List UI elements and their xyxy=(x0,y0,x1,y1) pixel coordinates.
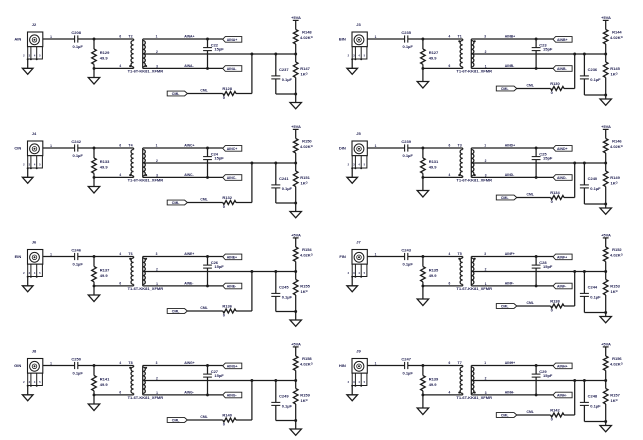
resistor R145 1K xyxy=(603,54,620,95)
wire CML flag to R142 xyxy=(517,414,551,416)
node AIND+ off-page flag xyxy=(553,146,572,152)
svg-text:1: 1 xyxy=(156,35,158,39)
ground at connector J5 xyxy=(347,168,358,183)
svg-text:AINC-: AINC- xyxy=(227,176,238,180)
junction C26 top xyxy=(206,255,209,258)
svg-text:AINE+: AINE+ xyxy=(227,255,237,259)
svg-text:AINB-: AINB- xyxy=(505,64,514,68)
junction C29 top xyxy=(535,364,538,367)
svg-text:R144: R144 xyxy=(612,30,622,35)
svg-text:CML: CML xyxy=(527,410,534,414)
wire T2 secondary top to AINA+ flag xyxy=(143,38,223,40)
capacitor C248 0.1uF xyxy=(580,381,601,422)
capacitor C250 0.1uF xyxy=(71,357,83,376)
svg-text:6: 6 xyxy=(119,282,121,286)
wire J5 pin 1 to C239 xyxy=(367,144,404,148)
svg-text:15pF: 15pF xyxy=(543,156,553,161)
junction C24 top xyxy=(206,147,209,150)
svg-text:0.1µF: 0.1µF xyxy=(73,262,84,267)
svg-text:CML: CML xyxy=(200,88,207,92)
node CML off-page flag xyxy=(496,195,517,200)
svg-text:AING+: AING+ xyxy=(184,361,194,365)
ground at divider xyxy=(600,95,611,105)
ground at divider xyxy=(600,313,611,323)
svg-text:T6: T6 xyxy=(128,252,132,256)
svg-text:AINE+: AINE+ xyxy=(184,252,194,256)
svg-text:AING-: AING- xyxy=(184,391,194,395)
svg-text:+5VA: +5VA xyxy=(601,342,611,347)
svg-text:1: 1 xyxy=(50,144,52,148)
resistor R133 49.9 xyxy=(92,148,110,177)
junction C28 bottom xyxy=(535,284,538,287)
transformer T8 T1-6T-KK81_XFMR xyxy=(119,361,163,400)
resistor R131 49.9 xyxy=(421,148,439,177)
ground at R139 xyxy=(417,395,428,415)
svg-text:R135: R135 xyxy=(429,268,439,273)
svg-text:1: 1 xyxy=(50,362,52,366)
svg-text:15pF: 15pF xyxy=(543,47,553,52)
connector J5 xyxy=(348,131,368,169)
wire T6 secondary bottom to AINE- flag xyxy=(143,285,223,287)
resistor R134 0 ohm xyxy=(550,190,564,204)
wire T3 center tap to bias node xyxy=(471,162,605,164)
node CML off-page flag xyxy=(167,200,187,205)
connector J6 xyxy=(23,240,43,278)
svg-text:6: 6 xyxy=(119,35,121,39)
node AINH+ off-page flag xyxy=(553,363,572,369)
svg-text:CML: CML xyxy=(501,305,509,309)
wire T4 center tap to bias node xyxy=(143,162,296,164)
svg-text:0.1µF: 0.1µF xyxy=(590,77,601,82)
svg-text:AINE-: AINE- xyxy=(184,282,193,286)
svg-text:15pF: 15pF xyxy=(543,373,553,378)
svg-text:R132: R132 xyxy=(222,195,232,200)
wire CML flag to R130 xyxy=(517,88,551,90)
svg-text:+5VA: +5VA xyxy=(601,15,611,20)
resistor R132 0 ohm xyxy=(222,195,236,209)
svg-text:4: 4 xyxy=(449,391,451,395)
svg-text:T1-6T-KK81_XFMR: T1-6T-KK81_XFMR xyxy=(456,395,492,400)
svg-text:J7: J7 xyxy=(356,240,361,245)
svg-text:AIND-: AIND- xyxy=(505,173,514,177)
capacitor C208 0.1uF xyxy=(71,30,83,49)
junction divider center tap xyxy=(604,53,607,56)
power +5VA xyxy=(601,233,611,238)
svg-text:15pF: 15pF xyxy=(214,47,224,52)
svg-text:1: 1 xyxy=(50,253,52,257)
junction CML to center tap xyxy=(573,270,576,273)
svg-text:R128: R128 xyxy=(222,86,232,91)
svg-text:R156: R156 xyxy=(612,356,622,361)
wire C246 to T6 primary top pin xyxy=(78,256,134,258)
svg-text:FIN: FIN xyxy=(339,254,346,259)
svg-text:CML: CML xyxy=(527,83,534,87)
junction C25 bottom xyxy=(535,176,538,179)
wire T2 secondary bottom to AINA- flag xyxy=(143,67,223,69)
transformer T6 T1-6T-KK81_XFMR xyxy=(119,252,163,291)
node AINB+ off-page flag xyxy=(553,37,572,43)
svg-text:C249: C249 xyxy=(279,394,289,399)
capacitor C29 15pF across AINH+/- xyxy=(532,366,553,395)
node AINE- off-page flag xyxy=(223,283,242,289)
resistor R136 0 ohm xyxy=(222,304,236,318)
svg-text:2: 2 xyxy=(156,50,158,54)
resistor R139 49.9 xyxy=(421,366,439,395)
node AINA+ off-page flag xyxy=(223,37,242,43)
transformer T7 T1-6T-KK81_XFMR xyxy=(449,361,493,400)
resistor R135 49.9 xyxy=(421,257,439,286)
resistor R151 1K xyxy=(293,163,310,203)
wire R137 bottom to T6 primary bottom pin xyxy=(94,285,134,287)
svg-text:0.1µF: 0.1µF xyxy=(403,44,414,49)
junction CML to center tap xyxy=(573,379,576,382)
svg-text:6: 6 xyxy=(449,361,451,365)
junction C248 top xyxy=(583,379,586,382)
resistor R129 49.9 xyxy=(92,39,110,68)
svg-text:+5VA: +5VA xyxy=(601,124,611,129)
junction bottom rail xyxy=(604,420,607,423)
node AINA- off-page flag xyxy=(223,66,242,72)
node AINC+ off-page flag xyxy=(223,146,242,152)
svg-text:4: 4 xyxy=(449,35,451,39)
junction R131 bottom xyxy=(421,176,424,179)
junction CML to center tap xyxy=(250,379,253,382)
junction CML to center tap xyxy=(250,162,253,165)
wire CML flag to R134 xyxy=(517,197,551,199)
svg-text:T1-6T-KK81_XFMR: T1-6T-KK81_XFMR xyxy=(128,178,164,183)
svg-text:AINF+: AINF+ xyxy=(557,255,567,259)
resistor R142 0 ohm xyxy=(550,408,564,422)
node AINC- off-page flag xyxy=(223,175,242,181)
ground at divider xyxy=(290,94,301,109)
resistor R153 1K xyxy=(603,272,620,313)
wire T1 center tap to bias node xyxy=(471,53,605,55)
svg-text:49.9: 49.9 xyxy=(429,56,438,61)
power +5VA xyxy=(291,15,301,20)
svg-text:C235: C235 xyxy=(401,30,411,35)
svg-text:AINF-: AINF- xyxy=(505,282,514,286)
wire T5 secondary bottom to AINF- flag xyxy=(471,285,553,287)
junction C23 top xyxy=(535,38,538,41)
wire R142 to center tap xyxy=(564,381,575,416)
resistor R127 49.9 xyxy=(421,39,439,68)
wire J4 pin 1 to C242 xyxy=(43,144,75,148)
wire R133 bottom to T4 primary bottom pin xyxy=(94,176,134,178)
wire bottom rail xyxy=(584,203,605,205)
ground at R135 xyxy=(417,286,428,306)
capacitor C235 0.1uF xyxy=(401,30,413,49)
junction divider center tap xyxy=(294,162,297,165)
svg-text:4: 4 xyxy=(449,173,451,177)
resistor R146 4.02K xyxy=(603,129,622,163)
ground at connector J7 xyxy=(347,277,358,292)
wire T5 secondary top to AINF+ flag xyxy=(471,256,553,258)
junction bottom rail xyxy=(604,203,607,206)
junction C244 top xyxy=(583,270,586,273)
junction bottom rail xyxy=(294,202,297,205)
svg-text:1: 1 xyxy=(375,144,377,148)
wire bottom rail xyxy=(276,202,296,204)
svg-text:GIN: GIN xyxy=(14,363,21,368)
wire C239 to T3 primary top pin xyxy=(408,147,463,149)
ground at connector J2 xyxy=(22,59,33,74)
svg-text:2: 2 xyxy=(156,376,158,380)
svg-text:CML: CML xyxy=(527,192,534,196)
power +5VA xyxy=(291,233,301,238)
connector J7 xyxy=(348,240,368,278)
resistor R148 4.02K xyxy=(293,20,312,54)
svg-text:AINB+: AINB+ xyxy=(505,35,515,39)
junction bottom rail xyxy=(294,310,297,313)
wire T1 secondary bottom to AINB- flag xyxy=(471,67,553,69)
svg-text:R133: R133 xyxy=(100,159,110,164)
connector J4 xyxy=(23,131,43,169)
svg-text:15pF: 15pF xyxy=(543,264,553,269)
junction divider center tap xyxy=(604,379,607,382)
svg-text:C248: C248 xyxy=(588,394,598,399)
wire R129 bottom to T2 primary bottom pin xyxy=(94,67,134,69)
svg-text:4: 4 xyxy=(119,361,121,365)
svg-text:0.1µF: 0.1µF xyxy=(590,186,601,191)
ground at connector J9 xyxy=(347,386,358,401)
junction C25 top xyxy=(535,147,538,150)
svg-text:AINH-: AINH- xyxy=(505,391,514,395)
node AINF- off-page flag xyxy=(553,283,572,289)
junction divider center tap xyxy=(604,270,607,273)
node CML off-page flag xyxy=(496,86,517,91)
svg-text:R142: R142 xyxy=(550,408,560,413)
svg-text:C246: C246 xyxy=(71,248,81,253)
junction CML to center tap xyxy=(250,270,253,273)
wire R132 to center tap xyxy=(236,163,252,203)
svg-text:R129: R129 xyxy=(100,50,110,55)
svg-text:CML: CML xyxy=(200,197,207,201)
resistor R159 1K xyxy=(293,381,310,421)
svg-text:CML: CML xyxy=(172,201,180,205)
svg-text:2: 2 xyxy=(485,267,487,271)
wire R127 bottom to T1 primary bottom pin xyxy=(423,67,463,69)
svg-text:R134: R134 xyxy=(550,190,560,195)
ground at divider xyxy=(290,312,301,327)
wire J2 pin 1 to C208 xyxy=(43,35,75,39)
capacitor C239 0.1uF xyxy=(401,139,413,158)
wire R141 bottom to T8 primary bottom pin xyxy=(94,394,134,396)
node AINE+ off-page flag xyxy=(223,254,242,260)
transformer T1 T1-6T-KK81_XFMR xyxy=(449,35,493,74)
svg-text:CML: CML xyxy=(172,310,180,314)
junction C22 bottom xyxy=(206,67,209,70)
ground at divider xyxy=(600,204,611,214)
resistor R141 49.9 xyxy=(92,366,110,395)
svg-text:AINA-: AINA- xyxy=(184,64,193,68)
svg-text:0.1µF: 0.1µF xyxy=(73,44,84,49)
svg-text:49.9: 49.9 xyxy=(429,273,438,278)
svg-text:CML: CML xyxy=(501,196,509,200)
svg-text:3: 3 xyxy=(156,361,158,365)
capacitor C27 15pF across AING+/- xyxy=(203,366,224,395)
svg-text:AINC+: AINC+ xyxy=(227,147,238,151)
junction C249 top xyxy=(274,379,277,382)
junction C24 bottom xyxy=(206,176,209,179)
wire bottom rail xyxy=(584,94,605,96)
power +5VA xyxy=(601,124,611,129)
wire T8 secondary bottom to AING- flag xyxy=(143,394,223,396)
svg-text:1: 1 xyxy=(375,253,377,257)
junction C236 top xyxy=(583,53,586,56)
svg-text:C245: C245 xyxy=(279,285,289,290)
junction C237 top xyxy=(274,53,277,56)
svg-text:AIND+: AIND+ xyxy=(505,144,515,148)
svg-text:HIN: HIN xyxy=(339,363,346,368)
svg-text:AINB-: AINB- xyxy=(557,67,568,71)
junction R137 top xyxy=(93,255,96,258)
wire J8 pin 1 to C250 xyxy=(43,362,75,366)
svg-text:15pF: 15pF xyxy=(214,373,224,378)
svg-text:R139: R139 xyxy=(429,377,439,382)
svg-text:CML: CML xyxy=(172,92,180,96)
wire T6 secondary top to AINE+ flag xyxy=(143,256,223,258)
junction C27 bottom xyxy=(206,393,209,396)
junction R135 top xyxy=(421,255,424,258)
svg-text:T1-6T-KK81_XFMR: T1-6T-KK81_XFMR xyxy=(456,286,492,291)
svg-text:4: 4 xyxy=(449,252,451,256)
svg-text:R150: R150 xyxy=(302,139,312,144)
svg-text:T1-6T-KK81_XFMR: T1-6T-KK81_XFMR xyxy=(128,69,164,74)
svg-text:+5VA: +5VA xyxy=(291,342,301,347)
wire bottom rail xyxy=(276,420,296,422)
wire C247 to T7 primary top pin xyxy=(408,365,463,367)
wire R134 to center tap xyxy=(564,163,575,198)
svg-text:0.1µF: 0.1µF xyxy=(282,404,293,409)
svg-text:49.9: 49.9 xyxy=(100,273,109,278)
svg-text:AINA-: AINA- xyxy=(227,67,238,71)
wire T6 center tap to bias node xyxy=(143,271,296,273)
svg-text:DIN: DIN xyxy=(339,146,346,151)
capacitor C240 0.1uF xyxy=(580,163,601,204)
junction R133 bottom xyxy=(93,176,96,179)
node AING- off-page flag xyxy=(223,392,242,398)
svg-text:49.9: 49.9 xyxy=(100,165,109,170)
svg-text:J4: J4 xyxy=(32,131,37,136)
svg-text:CML: CML xyxy=(200,415,207,419)
svg-text:R152: R152 xyxy=(612,247,622,252)
svg-text:C243: C243 xyxy=(401,248,411,253)
transformer T2 T1-6T-KK81_XFMR xyxy=(119,35,163,74)
svg-text:CML: CML xyxy=(200,306,207,310)
junction C241 top xyxy=(274,162,277,165)
power +5VA xyxy=(601,15,611,20)
resistor R144 4.02K xyxy=(603,20,622,54)
junction R141 top xyxy=(93,364,96,367)
resistor R128 0 ohm xyxy=(222,86,236,100)
wire R135 bottom to T5 primary bottom pin xyxy=(423,285,463,287)
resistor R150 4.02K xyxy=(293,129,312,163)
svg-text:T4: T4 xyxy=(128,144,132,148)
svg-text:AINH-: AINH- xyxy=(557,394,568,398)
resistor R157 1K xyxy=(603,381,620,422)
junction R127 top xyxy=(421,38,424,41)
svg-text:C242: C242 xyxy=(71,139,81,144)
svg-text:2: 2 xyxy=(156,159,158,163)
svg-text:C250: C250 xyxy=(71,357,81,362)
wire C243 to T5 primary top pin xyxy=(408,256,463,258)
wire T4 secondary top to AINC+ flag xyxy=(143,147,223,149)
node CML off-page flag xyxy=(496,304,517,309)
svg-text:T1-6T-KK81_XFMR: T1-6T-KK81_XFMR xyxy=(128,286,164,291)
svg-text:4: 4 xyxy=(119,173,121,177)
junction R139 top xyxy=(421,364,424,367)
wire bottom rail xyxy=(276,93,296,95)
svg-text:R127: R127 xyxy=(429,50,439,55)
junction C29 bottom xyxy=(535,393,538,396)
wire bottom rail xyxy=(584,421,605,423)
svg-text:R146: R146 xyxy=(612,139,622,144)
svg-text:J3: J3 xyxy=(356,22,361,27)
ground at connector J3 xyxy=(347,59,358,74)
resistor R156 4.02K xyxy=(603,347,622,381)
svg-text:0.1µF: 0.1µF xyxy=(282,77,293,82)
svg-text:4: 4 xyxy=(119,64,121,68)
wire T7 secondary bottom to AINH- flag xyxy=(471,394,553,396)
svg-text:CIN: CIN xyxy=(14,146,21,151)
wire T7 secondary top to AINH+ flag xyxy=(471,365,553,367)
ground at R133 xyxy=(88,177,99,193)
junction CML to center tap xyxy=(573,162,576,165)
svg-text:2: 2 xyxy=(485,159,487,163)
ground at connector J6 xyxy=(22,277,33,292)
resistor R158 4.02K xyxy=(293,347,312,381)
resistor R152 4.02K xyxy=(603,238,622,272)
wire T7 center tap to bias node xyxy=(471,380,605,382)
node CML off-page flag xyxy=(167,418,187,423)
junction R141 bottom xyxy=(93,393,96,396)
ground at connector J4 xyxy=(22,168,33,183)
power +5VA xyxy=(601,342,611,347)
wire R138 to center tap xyxy=(564,272,575,307)
svg-text:J8: J8 xyxy=(32,349,37,354)
svg-text:BIN: BIN xyxy=(339,37,346,42)
capacitor C23 15pF across AINB+/- xyxy=(532,39,553,68)
svg-text:AINC+: AINC+ xyxy=(184,144,194,148)
ground at divider xyxy=(600,422,611,432)
wire R139 bottom to T7 primary bottom pin xyxy=(423,394,463,396)
wire J7 pin 1 to C243 xyxy=(367,253,404,257)
connector J3 xyxy=(348,22,368,60)
wire T5 center tap to bias node xyxy=(471,271,605,273)
power +5VA xyxy=(291,342,301,347)
svg-text:49.9: 49.9 xyxy=(429,382,438,387)
junction R139 bottom xyxy=(421,393,424,396)
svg-text:C208: C208 xyxy=(71,30,81,35)
svg-text:T1-6T-KK81_XFMR: T1-6T-KK81_XFMR xyxy=(456,69,492,74)
svg-text:T1: T1 xyxy=(458,35,462,39)
capacitor C25 15pF across AIND+/- xyxy=(532,148,553,177)
junction R137 bottom xyxy=(93,284,96,287)
wire T4 secondary bottom to AINC- flag xyxy=(143,176,223,178)
ground at R129 xyxy=(88,68,99,84)
resistor R147 1K xyxy=(293,54,310,94)
svg-text:0.1µF: 0.1µF xyxy=(73,371,84,376)
svg-text:49.9: 49.9 xyxy=(429,165,438,170)
resistor R130 0 ohm xyxy=(550,81,564,95)
svg-text:49.9: 49.9 xyxy=(100,56,109,61)
junction divider center tap xyxy=(294,379,297,382)
wire CML flag to R140 xyxy=(187,419,222,421)
junction divider center tap xyxy=(294,270,297,273)
svg-text:R154: R154 xyxy=(302,247,312,252)
junction C27 top xyxy=(206,364,209,367)
junction CML to center tap xyxy=(573,53,576,56)
